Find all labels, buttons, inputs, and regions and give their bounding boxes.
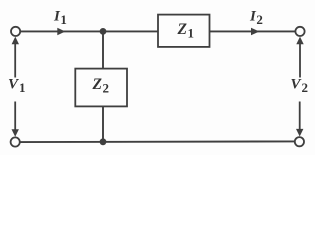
current arrow I1	[57, 28, 65, 36]
wire bottom segment	[20, 140, 295, 143]
terminal port1 top	[11, 27, 20, 36]
wire shunt lower segment	[102, 106, 104, 141]
current arrow I2	[251, 28, 259, 36]
node junction bottom	[100, 138, 107, 145]
impedance Z2	[75, 69, 127, 107]
impedance Z1	[158, 15, 210, 47]
wire top-right segment	[210, 30, 296, 32]
voltage arrow V1 upper	[14, 43, 16, 78]
svg-text:I1: I1	[53, 9, 67, 27]
voltage arrow V2 upper	[299, 43, 301, 78]
voltage arrow V2 lower	[299, 102, 301, 132]
svg-text:I2: I2	[249, 9, 263, 27]
wire top-left segment	[20, 30, 158, 32]
voltage arrow V1 lower	[14, 102, 16, 132]
svg-text:V1: V1	[8, 77, 26, 95]
wire shunt upper segment	[102, 31, 104, 68]
svg-text:V2: V2	[291, 77, 309, 95]
terminal port2 top	[295, 27, 304, 36]
terminal port2 bottom	[295, 137, 304, 146]
node junction top	[100, 28, 107, 35]
terminal port1 bottom	[11, 137, 20, 146]
